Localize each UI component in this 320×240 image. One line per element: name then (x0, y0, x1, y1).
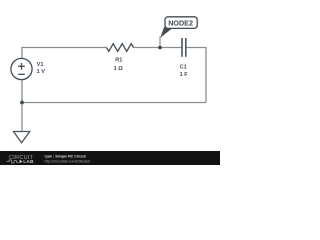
svg-text:ryan : Simple RC Circuit: ryan : Simple RC Circuit (45, 155, 87, 159)
wire node2 stub (159, 37, 161, 48)
junction node at ground rail (20, 101, 24, 105)
svg-text:C1: C1 (180, 64, 187, 70)
svg-text:NODE2: NODE2 (168, 19, 193, 28)
svg-text:http://circuitlab.com/c/9kc8uf: http://circuitlab.com/c/9kc8uf (45, 160, 90, 164)
wire capacitor to right corner and down (186, 48, 206, 103)
label V1 value (37, 62, 46, 75)
voltage source V1 (11, 58, 32, 79)
svg-text:1 F: 1 F (180, 72, 189, 78)
footer logo waveform (7, 160, 19, 163)
node NODE2 flag (160, 17, 197, 38)
label C1 value (180, 64, 189, 78)
footer bar (0, 151, 220, 165)
footer logo arrow (20, 160, 23, 163)
wire top-left corner to resistor (22, 48, 107, 59)
svg-text:R1: R1 (115, 58, 122, 64)
svg-text:1 Ω: 1 Ω (114, 66, 124, 72)
svg-text:1 V: 1 V (37, 69, 46, 75)
junction node at NODE2 (158, 46, 162, 50)
ground (14, 132, 30, 143)
wire rail to ground (21, 103, 23, 132)
svg-text:V1: V1 (37, 62, 44, 68)
wire bottom rail (22, 102, 206, 104)
capacitor C1 (182, 38, 186, 57)
svg-text:LAB: LAB (23, 159, 34, 165)
wire resistor to capacitor (133, 47, 181, 49)
wire V1 bottom to rail (21, 80, 23, 103)
label R1 value (114, 58, 124, 73)
resistor R1 (107, 44, 134, 52)
